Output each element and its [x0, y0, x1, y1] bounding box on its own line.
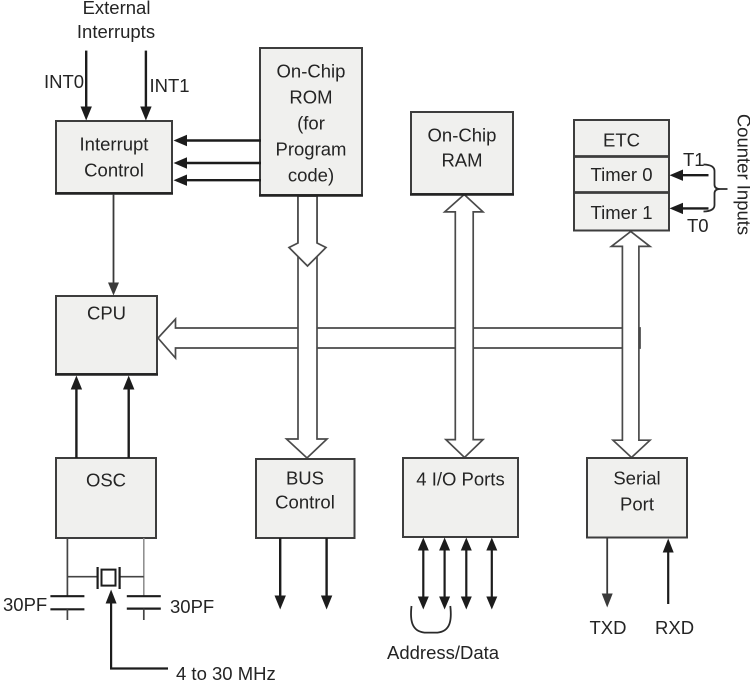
wire Interrupt Control to CPU arrow	[108, 194, 119, 296]
wire I/O port double arrow 2	[439, 538, 450, 610]
svg-text:On-Chip: On-Chip	[277, 61, 346, 82]
capacitor C1 30PF left	[50, 596, 84, 620]
wire I/O port double arrow 3	[461, 538, 472, 610]
svg-text:RAM: RAM	[441, 150, 482, 171]
svg-text:code): code)	[288, 165, 334, 186]
svg-text:Program: Program	[276, 139, 347, 160]
svg-text:30PF: 30PF	[170, 596, 214, 617]
wire ROM to Interrupt Control arrow 3	[174, 175, 262, 186]
label External Interrupts	[77, 0, 155, 42]
svg-text:Address/Data: Address/Data	[387, 642, 500, 663]
svg-text:T1: T1	[683, 149, 705, 170]
svg-text:OSC: OSC	[86, 470, 126, 491]
svg-text:External: External	[83, 0, 151, 18]
svg-text:Control: Control	[84, 160, 144, 181]
block ETC / Timer 0 / Timer 1 stack	[574, 120, 669, 231]
svg-text:Timer 0: Timer 0	[590, 164, 652, 185]
svg-text:Interrupt: Interrupt	[80, 134, 149, 155]
block On-Chip RAM	[410, 112, 514, 195]
svg-text:Counter Inputs: Counter Inputs	[734, 114, 750, 235]
bus arrow RAM to 4 I/O Ports (double-headed hollow arrow)	[445, 195, 483, 458]
wire OSC to CPU arrow right	[123, 376, 134, 459]
wire OSC left leg	[66, 538, 68, 596]
svg-text:CPU: CPU	[87, 303, 126, 324]
crystal X1	[98, 567, 120, 589]
wire RXD arrow into Serial Port	[663, 539, 674, 605]
svg-text:T0: T0	[687, 215, 709, 236]
svg-text:30PF: 30PF	[3, 594, 47, 615]
svg-text:Port: Port	[620, 494, 654, 515]
wire I/O port double arrow 1	[418, 538, 429, 610]
wire BUS Control down arrow right	[321, 538, 332, 610]
svg-text:Interrupts: Interrupts	[77, 21, 155, 42]
wire T0 arrow into Timer 1	[670, 203, 709, 214]
brace counter inputs	[704, 165, 728, 212]
wire crystal horizontal	[67, 576, 143, 578]
wire OSC to CPU arrow left	[71, 376, 82, 459]
wire ROM to Interrupt Control arrow 2	[174, 157, 262, 168]
svg-text:Timer 1: Timer 1	[590, 202, 652, 223]
svg-text:TXD: TXD	[590, 617, 627, 638]
capacitor C2 30PF right	[127, 596, 161, 620]
bracket under address/data arrows	[411, 606, 451, 633]
svg-text:INT1: INT1	[150, 75, 190, 96]
bus arrow ROM to BUS Control (vertical hollow arrow shaft with down head)	[287, 196, 328, 458]
block 4 I/O Ports	[403, 458, 518, 537]
svg-text:Serial: Serial	[613, 468, 660, 489]
svg-text:4 I/O Ports: 4 I/O Ports	[416, 469, 504, 490]
block BUS Control	[256, 459, 355, 538]
block CPU	[55, 296, 158, 375]
svg-text:RXD: RXD	[655, 617, 694, 638]
svg-text:4 to 30 MHz: 4 to 30 MHz	[176, 663, 276, 682]
block On-Chip ROM	[259, 48, 363, 196]
wire INT0 arrow into Interrupt Control	[81, 51, 92, 121]
block OSC	[56, 458, 156, 538]
svg-text:ETC: ETC	[603, 130, 640, 151]
block Serial Port	[587, 458, 687, 538]
wire OSC right leg	[143, 538, 145, 596]
bus arrow Timers to Serial Port (double-headed hollow arrow)	[611, 232, 650, 458]
svg-text:On-Chip: On-Chip	[428, 125, 497, 146]
wire T1 arrow into Timer 0	[670, 170, 709, 181]
svg-text:ROM: ROM	[289, 87, 332, 108]
svg-text:(for: (for	[297, 113, 325, 134]
wire INT1 arrow into Interrupt Control	[140, 51, 151, 121]
block Interrupt Control	[55, 121, 173, 194]
bus arrowhead below ROM (hollow down arrowhead)	[289, 196, 326, 266]
wire BUS Control down arrow left	[275, 538, 286, 610]
svg-text:Control: Control	[275, 492, 335, 513]
wire crystal frequency input arrow	[106, 590, 168, 669]
wire I/O port double arrow 4	[486, 538, 497, 610]
svg-text:INT0: INT0	[44, 71, 84, 92]
wire ROM to Interrupt Control arrow 1	[174, 135, 262, 146]
bus arrow to CPU (horizontal hollow arrow)	[158, 319, 640, 358]
svg-text:BUS: BUS	[286, 468, 324, 489]
wire TXD arrow out of Serial Port	[602, 538, 613, 608]
